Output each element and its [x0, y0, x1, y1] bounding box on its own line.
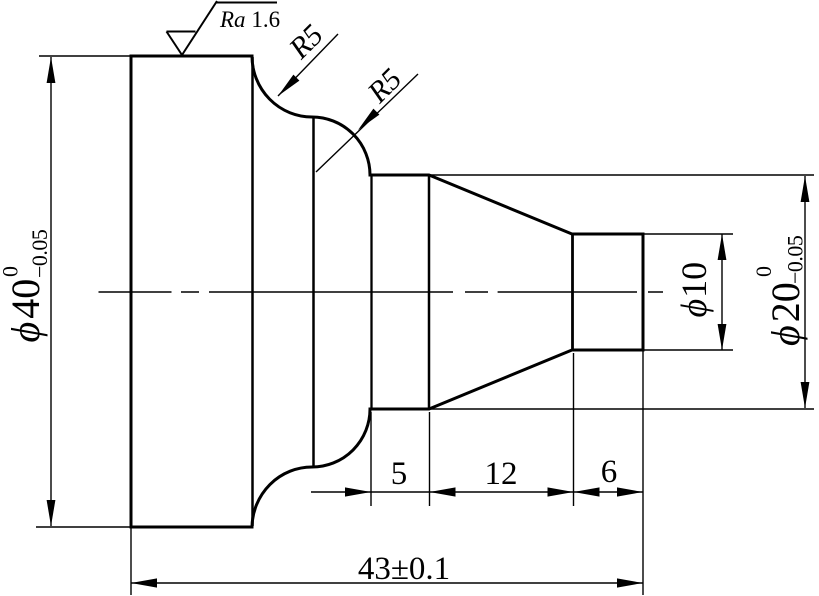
dim 5: left arrowhead (outside, pointing right) [345, 487, 371, 496]
svg-text:12: 12 [485, 456, 518, 492]
dim 43: left arrowhead [131, 578, 157, 587]
dimension phi40: top extension line [39, 55, 131, 57]
svg-text:5: 5 [391, 456, 408, 492]
dimension phi10: top extension line [643, 233, 733, 235]
dimension phi40: lower arrowhead [47, 500, 56, 526]
extension line below taper end (for dims 12 and 6) [573, 353, 575, 506]
dim 6: left arrowhead [574, 487, 600, 496]
dim 6: right arrowhead [617, 487, 643, 496]
right face edge of phi40 cylinder [251, 57, 254, 526]
cone small-end boundary edge [571, 235, 574, 349]
radius R5 first leader line [278, 34, 338, 96]
radius R5 second leader line [316, 74, 418, 172]
dimension phi40: bottom extension line [36, 526, 131, 528]
dimension phi20: dimension line [804, 176, 806, 408]
svg-text:6: 6 [601, 454, 618, 490]
svg-text:−0.05: −0.05 [783, 235, 808, 284]
cone large-end boundary edge [428, 176, 431, 408]
dimension line 43±0.1 [131, 582, 643, 584]
dimension line for 5 / 12 / 6 [311, 491, 643, 493]
svg-text:43±0.1: 43±0.1 [358, 551, 450, 587]
svg-text:Ra 1.6: Ra 1.6 [219, 7, 280, 32]
phi20 section left boundary edge [370, 176, 372, 408]
dimension phi10: bottom extension line [643, 349, 733, 351]
radius R5 second arrowhead [358, 109, 379, 130]
extension line below right face (for dims 6 and 43) [642, 350, 644, 595]
surface finish symbol: long arm [182, 1, 217, 55]
svg-text:−0.05: −0.05 [27, 229, 52, 278]
part profile outline (shaft body) [131, 56, 643, 527]
dim 43: right arrowhead [617, 578, 643, 587]
surface finish symbol: left edge [167, 32, 183, 56]
extension line below phi20 left shoulder (for dim 5) [370, 412, 372, 506]
dimension phi20: bottom extension line [429, 408, 814, 410]
dimension phi40: upper arrowhead [47, 57, 56, 83]
dimension phi10: upper arrowhead [718, 234, 727, 260]
dimension phi20: top extension line [429, 174, 814, 176]
extension line below taper start (for dims 5 and 12) [429, 412, 431, 506]
dim 12: right arrowhead [548, 487, 574, 496]
extension line below left face (for dim 43) [130, 527, 132, 595]
dimension phi10: dimension line [721, 234, 723, 350]
centerline (axis) [99, 291, 664, 293]
svg-text:ϕ10: ϕ10 [674, 262, 714, 318]
svg-text:ϕ20: ϕ20 [763, 282, 808, 346]
dimension phi10: lower arrowhead [718, 324, 727, 350]
dim 12: left arrowhead [430, 487, 456, 496]
surface finish symbol: horizontal bar [216, 2, 277, 4]
dimension phi20: upper arrowhead [801, 176, 810, 202]
surface finish symbol: triangle top edge [167, 31, 196, 33]
svg-text:0: 0 [751, 266, 776, 277]
dimension phi20: lower arrowhead [801, 382, 810, 408]
dimension phi40: dimension line [50, 57, 52, 526]
radius R5 first arrowhead [278, 75, 299, 96]
svg-text:ϕ40: ϕ40 [3, 279, 48, 343]
svg-text:0: 0 [0, 266, 23, 277]
tangent edge line at arc junction [312, 117, 315, 466]
